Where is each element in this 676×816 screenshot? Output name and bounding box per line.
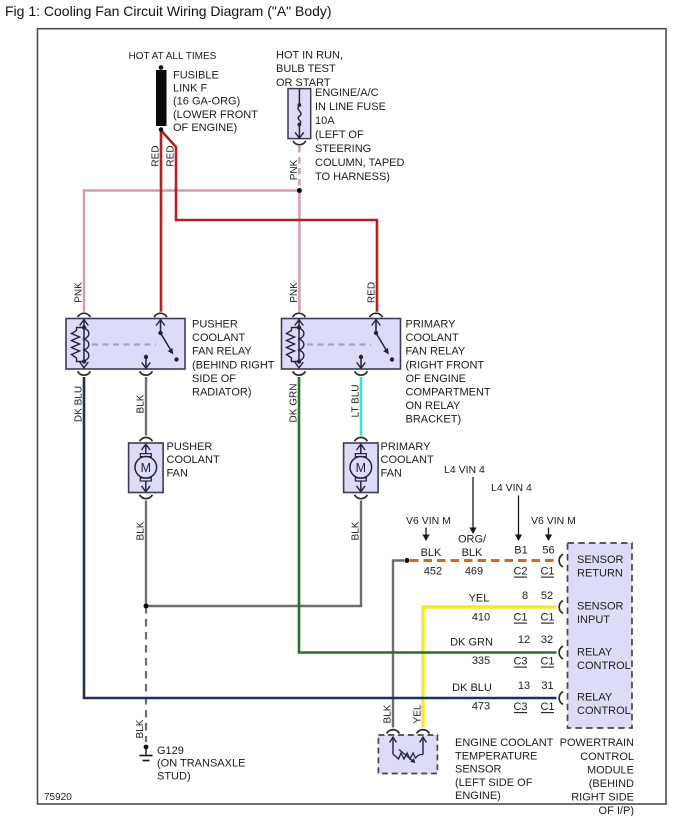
fuse ENGINE/A/C in-line fuse 10A <box>288 87 404 183</box>
svg-text:DK BLU: DK BLU <box>452 682 492 694</box>
cup PCM pin 31 <box>559 692 563 705</box>
svg-text:75920: 75920 <box>44 792 72 803</box>
svg-text:STEERING: STEERING <box>315 143 371 155</box>
svg-text:(16 GA-ORG): (16 GA-ORG) <box>173 96 240 108</box>
label wire row sensor input <box>469 590 555 624</box>
svg-text:M: M <box>356 461 366 475</box>
svg-text:RELAY: RELAY <box>577 692 613 704</box>
svg-text:Fig 1: Cooling Fan Circuit Wir: Fig 1: Cooling Fan Circuit Wiring Diagra… <box>5 3 332 19</box>
svg-text:RETURN: RETURN <box>577 567 623 579</box>
svg-text:BRACKET): BRACKET) <box>406 414 462 426</box>
svg-text:13: 13 <box>518 680 530 692</box>
svg-text:C1: C1 <box>540 612 554 624</box>
svg-text:CONTROL: CONTROL <box>577 660 631 672</box>
cup primary fan top <box>355 437 368 441</box>
svg-text:PNK: PNK <box>289 159 300 180</box>
wire BLK ECT sensor to splice <box>393 561 404 728</box>
svg-text:BLK: BLK <box>136 521 147 540</box>
label L4 VIN 4 right <box>491 482 532 541</box>
svg-text:G129: G129 <box>157 745 184 757</box>
svg-text:(RIGHT FRONT: (RIGHT FRONT <box>406 359 485 371</box>
svg-text:COLUMN, TAPED: COLUMN, TAPED <box>315 157 404 169</box>
svg-text:BLK: BLK <box>421 547 442 559</box>
svg-text:STUD): STUD) <box>157 770 191 782</box>
svg-text:335: 335 <box>472 655 490 667</box>
wire DK GRN primary relay to PCM <box>299 377 557 653</box>
fusible link F <box>156 65 258 134</box>
svg-text:FAN RELAY: FAN RELAY <box>192 346 252 358</box>
wire RED feed to pusher relay <box>160 131 163 312</box>
svg-text:RELAY: RELAY <box>577 647 613 659</box>
wire DK BLU pusher relay to PCM <box>84 377 557 698</box>
svg-text:CONTROL: CONTROL <box>580 751 634 763</box>
svg-text:HOT IN RUN,: HOT IN RUN, <box>276 49 343 61</box>
svg-text:COOLANT: COOLANT <box>381 454 434 466</box>
wire BLK pusher relay to fan <box>145 377 147 436</box>
label V6 VIN M left <box>406 515 451 541</box>
label wire row relay control green <box>450 634 554 668</box>
svg-text:RIGHT SIDE: RIGHT SIDE <box>571 792 634 804</box>
svg-text:52: 52 <box>541 590 553 602</box>
svg-text:COOLANT: COOLANT <box>192 332 245 344</box>
label wire row relay control blue <box>452 680 554 713</box>
svg-text:C1: C1 <box>540 701 554 713</box>
svg-text:RED: RED <box>367 282 378 303</box>
svg-text:FAN: FAN <box>381 468 402 480</box>
relay pusher coolant fan relay <box>66 319 275 399</box>
cup pusher relay pin 2 <box>154 313 167 317</box>
cup primary relay pin 1 <box>293 313 306 317</box>
wire YEL ECT sensor to PCM <box>423 607 557 728</box>
motor pusher coolant fan <box>129 441 220 493</box>
svg-text:PRIMARY: PRIMARY <box>381 441 432 453</box>
wire ORG/BLK dashed to PCM <box>410 559 556 562</box>
motor primary coolant fan <box>344 441 434 493</box>
svg-text:TEMPERATURE: TEMPERATURE <box>455 750 537 762</box>
cup fuse output <box>293 141 306 145</box>
svg-text:IN LINE FUSE: IN LINE FUSE <box>315 101 386 113</box>
svg-text:L4 VIN 4: L4 VIN 4 <box>491 482 532 494</box>
svg-text:COMPARTMENT: COMPARTMENT <box>406 387 491 399</box>
svg-text:469: 469 <box>465 566 483 578</box>
wire PNK to primary relay <box>298 191 301 312</box>
svg-text:COOLANT: COOLANT <box>406 332 459 344</box>
cup pusher relay pin 1 <box>78 313 91 317</box>
svg-text:473: 473 <box>472 701 490 713</box>
cup ECT pin YEL <box>417 730 430 734</box>
svg-text:PUSHER: PUSHER <box>167 441 213 453</box>
node hot-at-all-times label <box>129 51 217 62</box>
svg-text:SENSOR: SENSOR <box>577 554 624 566</box>
svg-text:BULB TEST: BULB TEST <box>276 63 336 75</box>
svg-text:FUSIBLE: FUSIBLE <box>173 69 219 81</box>
svg-text:YEL: YEL <box>469 593 490 605</box>
label V6 VIN M right <box>531 515 576 541</box>
svg-text:INPUT: INPUT <box>577 614 610 626</box>
svg-text:B1: B1 <box>514 545 527 557</box>
module powertrain control module <box>560 543 634 816</box>
svg-text:PNK: PNK <box>74 282 85 303</box>
svg-text:OF ENGINE: OF ENGINE <box>406 373 467 385</box>
svg-text:COOLANT: COOLANT <box>167 454 220 466</box>
label L4 VIN 4 left <box>444 464 485 534</box>
wire BLK dashed to ground <box>145 606 147 742</box>
svg-text:CONTROL: CONTROL <box>577 705 631 717</box>
wire BLK pusher fan to splice <box>145 501 147 607</box>
svg-text:LT BLU: LT BLU <box>351 385 362 418</box>
ground G129 <box>140 745 246 783</box>
node splice black junction <box>144 604 149 609</box>
svg-text:(LEFT OF: (LEFT OF <box>315 129 364 141</box>
svg-text:C3: C3 <box>513 656 527 668</box>
svg-text:OF ENGINE): OF ENGINE) <box>173 122 237 134</box>
svg-text:TO HARNESS): TO HARNESS) <box>315 171 390 183</box>
svg-text:DK GRN: DK GRN <box>450 637 493 649</box>
cup PCM pin 32 <box>559 646 563 659</box>
svg-text:(ON TRANSAXLE: (ON TRANSAXLE <box>157 758 245 770</box>
svg-text:BLK: BLK <box>383 704 394 723</box>
svg-text:(BEHIND RIGHT: (BEHIND RIGHT <box>192 359 275 371</box>
wire LT BLU primary relay to fan <box>360 377 363 436</box>
wire BLK primary fan to splice <box>146 501 361 607</box>
svg-text:452: 452 <box>424 566 442 578</box>
svg-text:PNK: PNK <box>289 282 300 303</box>
svg-text:OF I/P): OF I/P) <box>599 805 634 816</box>
svg-text:RADIATOR): RADIATOR) <box>192 387 252 399</box>
cup PCM pin 52 <box>559 601 563 614</box>
svg-text:MODULE: MODULE <box>587 764 634 776</box>
svg-text:PRIMARY: PRIMARY <box>406 319 457 331</box>
svg-text:L4 VIN 4: L4 VIN 4 <box>444 464 485 476</box>
svg-text:C3: C3 <box>513 701 527 713</box>
svg-text:BLK: BLK <box>351 521 362 540</box>
svg-text:8: 8 <box>522 590 528 602</box>
svg-text:31: 31 <box>541 680 553 692</box>
svg-text:HOT AT ALL TIMES: HOT AT ALL TIMES <box>129 51 217 62</box>
wire RED branch to primary relay <box>162 132 377 312</box>
sensor engine coolant temperature sensor <box>378 735 553 802</box>
svg-text:V6 VIN M: V6 VIN M <box>531 515 576 527</box>
node splice sensor return <box>405 558 410 563</box>
svg-text:56: 56 <box>542 545 554 557</box>
svg-text:FAN RELAY: FAN RELAY <box>406 346 466 358</box>
svg-text:10A: 10A <box>315 115 335 127</box>
svg-text:LINK F: LINK F <box>173 83 208 95</box>
svg-text:M: M <box>141 461 151 475</box>
svg-text:FAN: FAN <box>167 468 188 480</box>
cup PCM pin 56 <box>559 554 563 567</box>
svg-text:C2: C2 <box>513 566 527 578</box>
cup pusher relay pin 4 <box>140 371 153 375</box>
svg-text:SENSOR: SENSOR <box>455 764 502 776</box>
cup primary relay pin 2 <box>370 313 383 317</box>
cup primary relay pin 3 <box>293 371 306 375</box>
svg-text:C1: C1 <box>540 566 554 578</box>
svg-text:YEL: YEL <box>413 704 424 723</box>
wire PNK to pusher relay <box>84 191 299 312</box>
svg-text:ENGINE COOLANT: ENGINE COOLANT <box>455 737 554 749</box>
label wire row sensor return <box>421 534 555 578</box>
svg-text:SIDE OF: SIDE OF <box>192 373 236 385</box>
svg-text:BLK: BLK <box>462 547 483 559</box>
svg-text:410: 410 <box>472 612 490 624</box>
svg-text:RED: RED <box>166 145 177 166</box>
cup pusher fan bottom <box>140 495 153 499</box>
svg-text:BLK: BLK <box>136 394 147 413</box>
svg-text:(LOWER FRONT: (LOWER FRONT <box>173 109 258 121</box>
cup primary fan bottom <box>355 495 368 499</box>
svg-text:PUSHER: PUSHER <box>192 319 238 331</box>
svg-text:12: 12 <box>518 634 530 646</box>
svg-text:ORG/: ORG/ <box>458 534 487 546</box>
svg-text:RED: RED <box>151 145 162 166</box>
svg-text:DK GRN: DK GRN <box>289 384 300 423</box>
wire PNK dashed from fuse <box>298 146 301 188</box>
svg-text:V6 VIN M: V6 VIN M <box>406 515 451 527</box>
node hot-in-run label <box>276 49 343 89</box>
svg-text:ENGINE): ENGINE) <box>455 790 501 802</box>
cup ECT pin BLK <box>387 730 400 734</box>
svg-text:(BEHIND: (BEHIND <box>589 778 634 790</box>
svg-text:ENGINE/A/C: ENGINE/A/C <box>315 87 379 99</box>
svg-text:C1: C1 <box>540 656 554 668</box>
svg-text:DK BLU: DK BLU <box>74 386 85 422</box>
svg-text:(LEFT SIDE OF: (LEFT SIDE OF <box>455 777 533 789</box>
svg-text:SENSOR: SENSOR <box>577 601 624 613</box>
svg-text:C1: C1 <box>513 612 527 624</box>
svg-text:BLK: BLK <box>135 719 146 738</box>
svg-text:POWERTRAIN: POWERTRAIN <box>560 737 634 749</box>
svg-text:ON RELAY: ON RELAY <box>406 400 461 412</box>
cup pusher relay pin 3 <box>78 371 91 375</box>
node splice pink junction <box>297 188 302 193</box>
cup primary relay pin 4 <box>355 371 368 375</box>
relay primary coolant fan relay <box>282 319 491 426</box>
svg-text:32: 32 <box>541 634 553 646</box>
cup pusher fan top <box>140 437 153 441</box>
